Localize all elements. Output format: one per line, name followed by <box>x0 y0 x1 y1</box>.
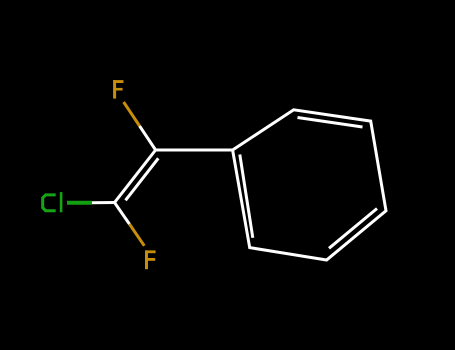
ring inner double bond V2V3 (top) <box>298 118 363 128</box>
label F bottom <box>145 250 156 269</box>
ring inner double bond V4V5 (bottom right) <box>329 209 377 249</box>
wire: C1=C2 double bond inner line <box>126 158 159 200</box>
bond: Cl to C2, green half <box>67 201 92 205</box>
wire: C1=C2 double bond main line <box>115 150 156 203</box>
bond: F(top) to C1, goldenrod half <box>124 102 140 126</box>
label F top <box>113 80 123 99</box>
ring inner double bond V6V1 (left) <box>240 155 253 238</box>
bond: F(top) to C1, white half <box>140 126 156 150</box>
bond: F(bottom) to C2, goldenrod half <box>129 224 144 246</box>
benzene ring outline <box>233 110 386 260</box>
label Cl <box>41 192 62 212</box>
bond: F(bottom) to C2, white half <box>115 203 130 225</box>
bond: Cl to C2, white half <box>92 201 115 204</box>
wire: C1 to ring bond <box>156 149 233 152</box>
